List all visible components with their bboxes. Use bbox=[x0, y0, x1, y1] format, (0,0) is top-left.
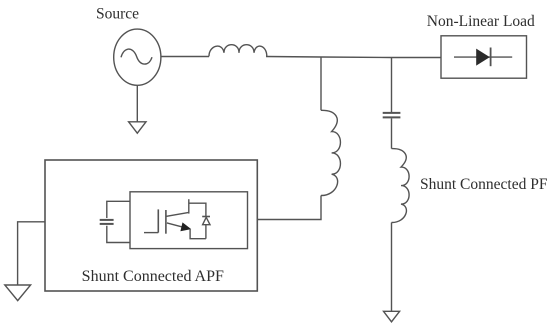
node junction APF tap bbox=[320, 57, 322, 110]
ground (PF branch) bbox=[384, 311, 400, 322]
IGBT gate lead bbox=[144, 232, 158, 234]
IGBT collector stub bbox=[188, 199, 190, 213]
svg-text:Shunt Connected APF: Shunt Connected APF bbox=[82, 268, 224, 285]
IGBT emitter diagonal bbox=[167, 223, 185, 228]
capacitor (PF branch) bbox=[383, 112, 401, 114]
IGBT emitter lead bbox=[190, 229, 206, 239]
freewheel diode bottom wire bbox=[205, 225, 207, 239]
wire cap to PF inductor bbox=[391, 118, 393, 148]
capacitor C (dc link) bbox=[100, 219, 114, 221]
node junction PF tap bbox=[391, 58, 393, 113]
wire PF inductor to ground bbox=[391, 223, 393, 312]
IGBT collector diagonal bbox=[167, 212, 189, 216]
inductor L1 (series line inductor) bbox=[209, 45, 267, 57]
wire L1 to load bbox=[266, 57, 441, 58]
svg-text:Shunt Connected PF: Shunt Connected PF bbox=[420, 176, 548, 193]
freewheel diode top wire bbox=[189, 203, 206, 216]
Non-Linear Load box bbox=[441, 36, 527, 78]
sine wave inside source bbox=[121, 49, 152, 64]
inverter inner box bbox=[130, 192, 248, 249]
AC source VS bbox=[114, 29, 161, 85]
inductor (APF coupling, vertical) bbox=[321, 110, 340, 195]
wire dc-link bottom bbox=[107, 226, 130, 243]
freewheel diode cathode bar bbox=[202, 216, 210, 218]
wire source to L1 bbox=[161, 56, 209, 58]
wire source to ground bbox=[136, 85, 138, 122]
IGBT body bar bbox=[165, 210, 167, 234]
ground (source) bbox=[129, 122, 146, 133]
Shunt Connected APF outer box bbox=[45, 160, 257, 291]
IGBT emitter arrow bbox=[180, 222, 191, 231]
inductor (PF branch, vertical) bbox=[392, 149, 410, 223]
wire APF inductor to APF box bbox=[257, 196, 321, 220]
IGBT gate bar bbox=[157, 209, 159, 232]
wire APF box to ground (left) bbox=[18, 222, 45, 285]
svg-text:Non-Linear Load: Non-Linear Load bbox=[427, 13, 535, 30]
ground (APF left) bbox=[5, 285, 31, 301]
wire dc-link top bbox=[107, 201, 130, 218]
svg-text:Source: Source bbox=[96, 6, 139, 23]
freewheel diode triangle bbox=[203, 217, 210, 224]
diode D1 (load) bbox=[454, 56, 512, 58]
